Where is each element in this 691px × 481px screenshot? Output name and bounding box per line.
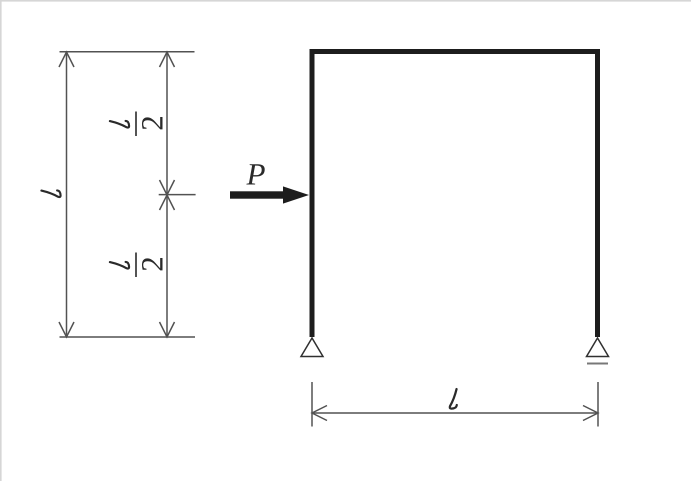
label l (bottom span) [450,389,457,409]
right pinned support [587,338,609,357]
right support ground line [587,363,608,365]
arrowhead down (mid junction) [160,180,175,195]
arrowhead up (mid junction) [160,195,175,210]
label l (rotated, full height) [41,190,60,197]
arrowhead up (top) [160,52,175,67]
full-height dimension line l [59,52,74,337]
bottom extension line [60,336,196,338]
load arrow P: shaft [230,191,285,198]
faint top screenshot edge [0,0,691,2]
arrowhead down (bottom) [59,322,74,337]
load arrow P: head [283,186,309,203]
mid junction tick [159,194,196,196]
faint left screenshot edge [0,0,2,481]
portal frame: columns and beam [312,52,598,338]
arrowhead left [312,406,327,421]
top extension line [60,51,195,53]
bottom dimension: left extension tick [311,382,313,427]
left pinned support [301,338,323,357]
label l/2 lower (rotated fraction) [110,253,163,278]
half-height dimension line l/2 [159,52,196,337]
label l/2 upper (rotated fraction) [110,112,163,137]
bottom dimension line l [312,406,598,421]
arrowhead up (top) [59,52,74,67]
arrowhead right [583,406,598,421]
label P [246,164,264,184]
arrowhead down (bottom) [160,322,175,337]
bottom dimension: right extension tick [597,382,599,427]
